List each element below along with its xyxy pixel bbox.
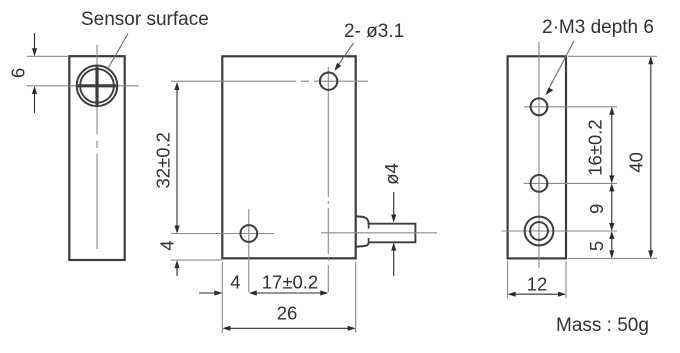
rear view vertical center line xyxy=(538,42,540,268)
bottom right extension line xyxy=(565,261,567,299)
sensor surface outer circle xyxy=(77,66,118,107)
svg-text:40: 40 xyxy=(626,152,647,173)
dim 6 lower dimension line with arrow xyxy=(34,88,36,114)
dim 6 top extension line xyxy=(27,55,69,57)
top M3 hole xyxy=(531,98,548,115)
top M3 hole horizontal center line xyxy=(524,106,617,108)
svg-text:16±0.2: 16±0.2 xyxy=(585,119,606,175)
leader line 2·M3 with arrow xyxy=(547,41,574,93)
side view body outline xyxy=(69,56,124,260)
sensor surface vertical center line (dash-dot) xyxy=(96,45,98,249)
svg-text:32±0.2: 32±0.2 xyxy=(152,132,173,188)
svg-text:2- ø3.1: 2- ø3.1 xyxy=(344,21,404,42)
bottom left edge extension line xyxy=(221,262,223,333)
bottom edge extension line xyxy=(568,257,657,259)
dim 40 dimension line with arrows xyxy=(650,58,652,257)
middle M3 hole horizontal center line xyxy=(524,182,617,184)
dim ø4 upper dimension line with arrow xyxy=(393,192,395,221)
sensor surface cross horizontal bar xyxy=(78,84,116,87)
rear view body outline xyxy=(508,56,566,258)
top hole circle xyxy=(320,73,337,90)
top edge extension line xyxy=(568,55,657,57)
connector hole inner circle xyxy=(530,222,548,240)
sensor surface inner circle xyxy=(80,69,114,103)
bottom hole horizontal center line xyxy=(171,233,274,235)
connector flange junction line lower xyxy=(368,238,370,243)
bottom right edge extension line xyxy=(355,262,357,333)
connector hole horizontal center line xyxy=(502,230,618,232)
connector barrel end face xyxy=(414,223,416,243)
connector flange top outline xyxy=(356,216,369,224)
svg-text:4: 4 xyxy=(156,240,177,250)
bottom hole vertical center line xyxy=(248,209,250,292)
svg-text:12: 12 xyxy=(527,274,548,295)
svg-text:17±0.2: 17±0.2 xyxy=(262,272,318,293)
bottom left extension line xyxy=(507,261,509,299)
connector center line xyxy=(321,232,437,234)
svg-text:5: 5 xyxy=(586,241,607,251)
connector barrel top edge xyxy=(369,223,415,225)
dim 26 dimension line with arrows xyxy=(224,327,354,329)
connector flange bottom outline xyxy=(356,243,369,247)
sensor surface horizontal center line xyxy=(27,85,139,87)
dim 32 dimension line with arrows xyxy=(176,84,178,233)
dim 12 dimension line with arrows xyxy=(509,293,564,295)
top hole horizontal center line xyxy=(171,80,368,82)
middle M3 hole xyxy=(531,175,548,192)
top hole vertical center line xyxy=(327,67,329,292)
dim 17±0.2 dimension line with arrows xyxy=(251,292,327,294)
dim 16±0.2 dimension line with arrows xyxy=(611,109,613,182)
sensor surface cross vertical bar xyxy=(95,67,98,105)
svg-text:4: 4 xyxy=(230,272,240,293)
connector barrel bottom edge xyxy=(369,241,415,243)
connector flange junction line upper xyxy=(368,224,370,229)
svg-text:26: 26 xyxy=(277,303,298,324)
dim 6 upper dimension line with arrow xyxy=(34,33,36,55)
svg-text:2·M3 depth 6: 2·M3 depth 6 xyxy=(542,17,654,38)
dim 9 dimension line with arrows xyxy=(611,185,613,229)
dim 4 (horizontal) outside dimension line with arrow xyxy=(199,292,221,294)
dim 4 (vertical) bottom extension line xyxy=(171,259,222,261)
svg-text:Mass : 50g: Mass : 50g xyxy=(556,315,649,336)
front view body outline xyxy=(222,56,355,258)
leader line Sensor surface xyxy=(109,34,129,68)
svg-text:ø4: ø4 xyxy=(381,163,402,185)
leader line 2- ø3.1 with arrow xyxy=(337,43,354,68)
dim 5 dimension line with arrows xyxy=(611,233,613,257)
svg-text:Sensor surface: Sensor surface xyxy=(81,9,209,30)
svg-text:9: 9 xyxy=(586,204,607,214)
connector hole outer circle xyxy=(525,217,554,246)
dim 4 (vertical) dimension line below with arrow xyxy=(176,262,178,277)
svg-text:6: 6 xyxy=(7,68,28,78)
bottom hole circle xyxy=(240,225,257,242)
dim ø4 lower dimension line with arrow xyxy=(393,244,395,276)
